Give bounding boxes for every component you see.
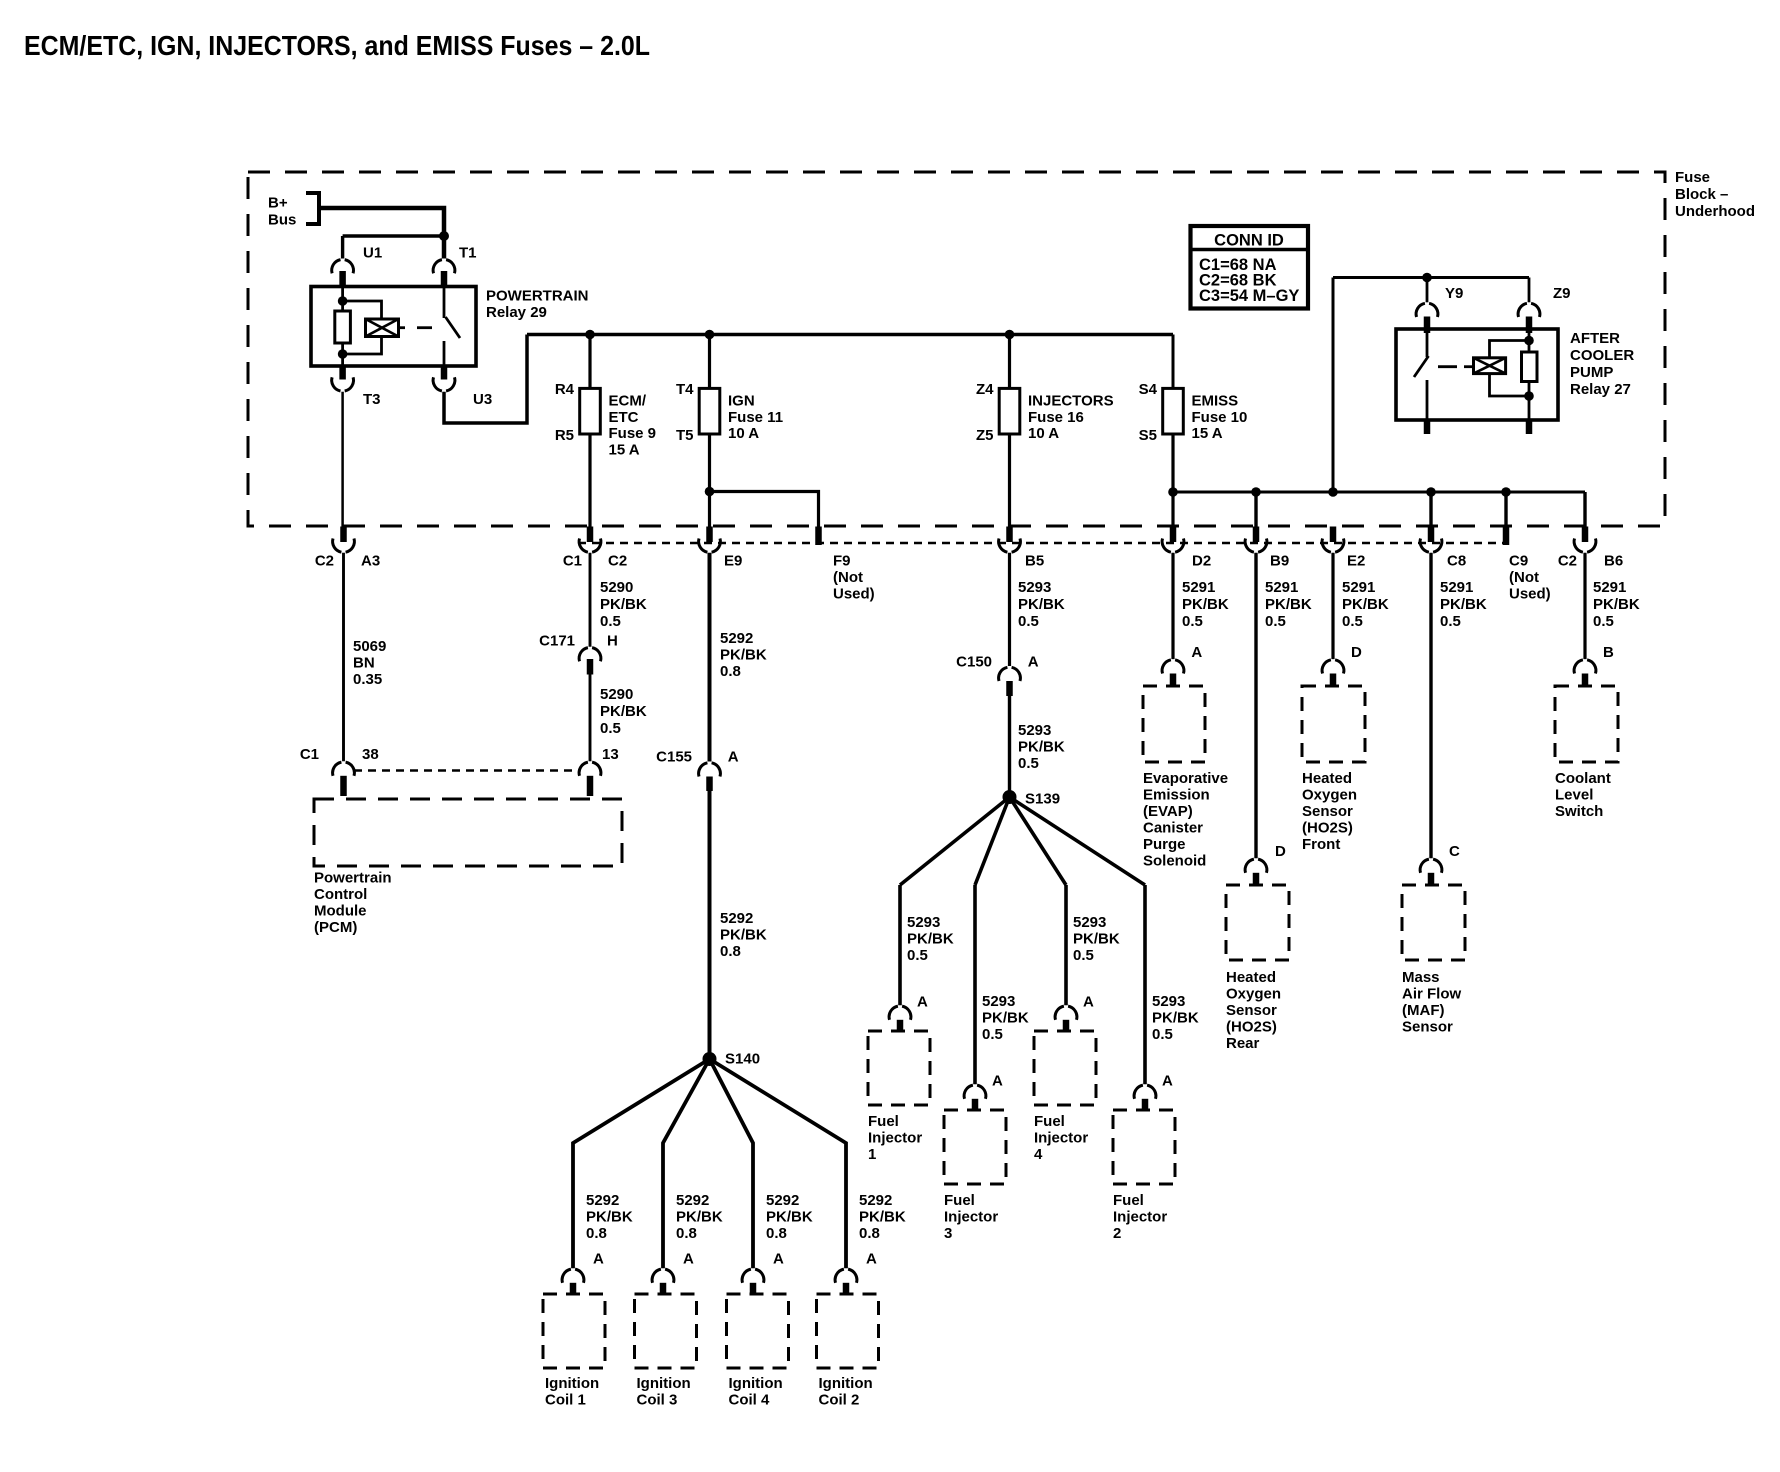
svg-text:Oxygen: Oxygen bbox=[1302, 787, 1357, 804]
svg-text:COOLER: COOLER bbox=[1570, 347, 1634, 364]
svg-text:Block –: Block – bbox=[1675, 186, 1728, 203]
svg-text:C1: C1 bbox=[563, 553, 582, 570]
svg-text:PK/BK: PK/BK bbox=[1265, 596, 1312, 613]
svg-text:15 A: 15 A bbox=[609, 441, 640, 458]
svg-text:C8: C8 bbox=[1447, 553, 1466, 570]
svg-text:A: A bbox=[728, 749, 739, 766]
svg-text:Z5: Z5 bbox=[976, 427, 994, 444]
svg-text:D: D bbox=[1351, 644, 1362, 661]
svg-text:5292: 5292 bbox=[766, 1192, 799, 1209]
svg-text:PK/BK: PK/BK bbox=[1593, 596, 1640, 613]
svg-text:Rear: Rear bbox=[1226, 1035, 1260, 1052]
svg-text:BN: BN bbox=[353, 655, 375, 672]
svg-text:Heated: Heated bbox=[1226, 969, 1276, 986]
svg-text:Fuse 11: Fuse 11 bbox=[728, 409, 783, 426]
svg-text:5293: 5293 bbox=[1018, 722, 1051, 739]
svg-text:Coil 3: Coil 3 bbox=[637, 1392, 678, 1409]
svg-text:5290: 5290 bbox=[600, 579, 633, 596]
svg-text:0.5: 0.5 bbox=[1073, 947, 1094, 964]
svg-text:A: A bbox=[773, 1251, 784, 1268]
svg-text:4: 4 bbox=[1034, 1146, 1043, 1163]
svg-text:S139: S139 bbox=[1025, 791, 1060, 808]
svg-text:C2: C2 bbox=[608, 553, 627, 570]
svg-text:E2: E2 bbox=[1347, 553, 1365, 570]
svg-text:Used): Used) bbox=[1509, 586, 1551, 603]
svg-text:Level: Level bbox=[1555, 787, 1593, 804]
svg-text:A: A bbox=[1028, 654, 1039, 671]
svg-text:PUMP: PUMP bbox=[1570, 364, 1613, 381]
svg-text:5292: 5292 bbox=[859, 1192, 892, 1209]
svg-text:0.8: 0.8 bbox=[586, 1225, 607, 1242]
svg-text:Control: Control bbox=[314, 886, 367, 903]
svg-text:C9: C9 bbox=[1509, 553, 1528, 570]
svg-text:R4: R4 bbox=[555, 381, 575, 398]
svg-text:Fuse 16: Fuse 16 bbox=[1028, 409, 1084, 426]
svg-text:Emission: Emission bbox=[1143, 787, 1210, 804]
svg-text:B+: B+ bbox=[268, 195, 288, 212]
svg-text:Injector: Injector bbox=[1034, 1130, 1088, 1147]
svg-text:B5: B5 bbox=[1025, 553, 1044, 570]
svg-text:B: B bbox=[1603, 644, 1614, 661]
svg-text:A: A bbox=[917, 994, 928, 1011]
svg-text:ECM/ETC, IGN, INJECTORS, and E: ECM/ETC, IGN, INJECTORS, and EMISS Fuses… bbox=[24, 30, 650, 61]
svg-text:Canister: Canister bbox=[1143, 820, 1203, 837]
svg-text:0.8: 0.8 bbox=[720, 663, 741, 680]
svg-text:0.8: 0.8 bbox=[859, 1225, 880, 1242]
svg-text:Underhood: Underhood bbox=[1675, 203, 1755, 220]
svg-text:0.8: 0.8 bbox=[676, 1225, 697, 1242]
svg-text:T5: T5 bbox=[676, 427, 694, 444]
svg-text:5293: 5293 bbox=[982, 993, 1015, 1010]
svg-text:PK/BK: PK/BK bbox=[1342, 596, 1389, 613]
svg-text:Module: Module bbox=[314, 903, 367, 920]
svg-text:0.8: 0.8 bbox=[720, 943, 741, 960]
svg-text:S5: S5 bbox=[1139, 427, 1157, 444]
svg-text:0.5: 0.5 bbox=[1152, 1026, 1173, 1043]
svg-text:ETC: ETC bbox=[609, 409, 639, 426]
svg-text:0.5: 0.5 bbox=[1265, 613, 1286, 630]
svg-text:Ignition: Ignition bbox=[637, 1375, 691, 1392]
svg-text:0.8: 0.8 bbox=[766, 1225, 787, 1242]
svg-text:5292: 5292 bbox=[720, 630, 753, 647]
svg-text:0.5: 0.5 bbox=[1342, 613, 1363, 630]
svg-text:5293: 5293 bbox=[1073, 914, 1106, 931]
svg-text:(HO2S): (HO2S) bbox=[1226, 1019, 1277, 1036]
svg-text:Injector: Injector bbox=[1113, 1209, 1167, 1226]
svg-text:5291: 5291 bbox=[1440, 579, 1473, 596]
svg-text:A: A bbox=[1162, 1073, 1173, 1090]
svg-text:2: 2 bbox=[1113, 1225, 1121, 1242]
svg-text:PK/BK: PK/BK bbox=[1152, 1010, 1199, 1027]
svg-text:Z4: Z4 bbox=[976, 381, 994, 398]
svg-text:C171: C171 bbox=[539, 633, 575, 650]
svg-text:(HO2S): (HO2S) bbox=[1302, 820, 1353, 837]
svg-text:H: H bbox=[607, 633, 618, 650]
svg-text:A: A bbox=[1191, 644, 1202, 661]
svg-text:PK/BK: PK/BK bbox=[1440, 596, 1487, 613]
svg-text:PK/BK: PK/BK bbox=[1018, 596, 1065, 613]
svg-text:Sensor: Sensor bbox=[1302, 803, 1353, 820]
svg-text:PK/BK: PK/BK bbox=[600, 596, 647, 613]
svg-text:Relay 29: Relay 29 bbox=[486, 304, 547, 321]
svg-text:10 A: 10 A bbox=[1028, 425, 1059, 442]
svg-text:Sensor: Sensor bbox=[1226, 1002, 1277, 1019]
svg-text:Ignition: Ignition bbox=[819, 1375, 873, 1392]
svg-text:Fuel: Fuel bbox=[1034, 1113, 1065, 1130]
svg-text:C150: C150 bbox=[956, 654, 992, 671]
svg-text:Fuel: Fuel bbox=[1113, 1192, 1144, 1209]
svg-text:Coolant: Coolant bbox=[1555, 770, 1611, 787]
svg-text:0.5: 0.5 bbox=[1018, 755, 1039, 772]
svg-text:Front: Front bbox=[1302, 836, 1340, 853]
svg-text:PK/BK: PK/BK bbox=[676, 1209, 723, 1226]
svg-text:POWERTRAIN: POWERTRAIN bbox=[486, 288, 589, 305]
svg-text:0.5: 0.5 bbox=[1593, 613, 1614, 630]
svg-text:(MAF): (MAF) bbox=[1402, 1002, 1444, 1019]
svg-text:D2: D2 bbox=[1192, 553, 1211, 570]
svg-text:PK/BK: PK/BK bbox=[720, 647, 767, 664]
svg-text:PK/BK: PK/BK bbox=[982, 1010, 1029, 1027]
svg-text:Coil 4: Coil 4 bbox=[729, 1392, 770, 1409]
svg-text:0.5: 0.5 bbox=[600, 720, 621, 737]
svg-text:PK/BK: PK/BK bbox=[766, 1209, 813, 1226]
svg-text:C3=54 M–GY: C3=54 M–GY bbox=[1199, 287, 1299, 305]
svg-text:5292: 5292 bbox=[586, 1192, 619, 1209]
svg-text:Fuse: Fuse bbox=[1675, 169, 1710, 186]
svg-text:1: 1 bbox=[868, 1146, 876, 1163]
svg-text:(PCM): (PCM) bbox=[314, 919, 357, 936]
svg-text:A: A bbox=[1083, 994, 1094, 1011]
svg-text:AFTER: AFTER bbox=[1570, 330, 1620, 347]
svg-text:0.35: 0.35 bbox=[353, 671, 382, 688]
svg-text:A: A bbox=[992, 1073, 1003, 1090]
svg-text:Switch: Switch bbox=[1555, 803, 1603, 820]
svg-text:Relay 27: Relay 27 bbox=[1570, 381, 1631, 398]
svg-text:5291: 5291 bbox=[1593, 579, 1626, 596]
svg-text:Ignition: Ignition bbox=[729, 1375, 783, 1392]
svg-text:T4: T4 bbox=[676, 381, 694, 398]
svg-text:C155: C155 bbox=[656, 749, 692, 766]
svg-text:B9: B9 bbox=[1270, 553, 1289, 570]
svg-text:C1: C1 bbox=[300, 746, 319, 763]
svg-text:Z9: Z9 bbox=[1553, 285, 1571, 302]
svg-text:Used): Used) bbox=[833, 586, 875, 603]
svg-text:Fuel: Fuel bbox=[944, 1192, 975, 1209]
svg-text:5292: 5292 bbox=[676, 1192, 709, 1209]
svg-text:U3: U3 bbox=[473, 391, 492, 408]
svg-text:EMISS: EMISS bbox=[1192, 393, 1239, 410]
svg-text:S140: S140 bbox=[725, 1051, 760, 1068]
svg-text:(Not: (Not bbox=[833, 569, 863, 586]
svg-text:Coil 2: Coil 2 bbox=[819, 1392, 860, 1409]
svg-text:0.5: 0.5 bbox=[1018, 613, 1039, 630]
svg-text:T3: T3 bbox=[363, 391, 381, 408]
svg-text:5292: 5292 bbox=[720, 910, 753, 927]
svg-text:S4: S4 bbox=[1139, 381, 1158, 398]
svg-text:INJECTORS: INJECTORS bbox=[1028, 393, 1114, 410]
svg-text:5291: 5291 bbox=[1342, 579, 1375, 596]
svg-text:C2: C2 bbox=[1558, 553, 1577, 570]
svg-text:A: A bbox=[683, 1251, 694, 1268]
svg-text:Powertrain: Powertrain bbox=[314, 870, 392, 887]
svg-text:Purge: Purge bbox=[1143, 836, 1186, 853]
svg-text:PK/BK: PK/BK bbox=[1073, 931, 1120, 948]
svg-text:5291: 5291 bbox=[1182, 579, 1215, 596]
svg-text:0.5: 0.5 bbox=[907, 947, 928, 964]
svg-text:Sensor: Sensor bbox=[1402, 1019, 1453, 1036]
svg-text:5290: 5290 bbox=[600, 686, 633, 703]
svg-text:38: 38 bbox=[362, 746, 379, 763]
svg-text:PK/BK: PK/BK bbox=[907, 931, 954, 948]
svg-text:5293: 5293 bbox=[907, 914, 940, 931]
svg-text:Oxygen: Oxygen bbox=[1226, 986, 1281, 1003]
svg-text:3: 3 bbox=[944, 1225, 952, 1242]
svg-text:Mass: Mass bbox=[1402, 969, 1440, 986]
svg-text:0.5: 0.5 bbox=[982, 1026, 1003, 1043]
svg-text:PK/BK: PK/BK bbox=[586, 1209, 633, 1226]
svg-text:R5: R5 bbox=[555, 427, 574, 444]
svg-text:5291: 5291 bbox=[1265, 579, 1298, 596]
svg-text:Heated: Heated bbox=[1302, 770, 1352, 787]
svg-text:A3: A3 bbox=[361, 553, 380, 570]
svg-text:Ignition: Ignition bbox=[545, 1375, 599, 1392]
svg-text:Air Flow: Air Flow bbox=[1402, 986, 1461, 1003]
svg-text:C: C bbox=[1449, 843, 1460, 860]
svg-text:Coil 1: Coil 1 bbox=[545, 1392, 586, 1409]
svg-text:Solenoid: Solenoid bbox=[1143, 853, 1206, 870]
svg-text:0.5: 0.5 bbox=[1440, 613, 1461, 630]
svg-text:0.5: 0.5 bbox=[1182, 613, 1203, 630]
svg-text:5293: 5293 bbox=[1018, 579, 1051, 596]
svg-text:PK/BK: PK/BK bbox=[720, 927, 767, 944]
svg-text:Fuse 10: Fuse 10 bbox=[1192, 409, 1248, 426]
svg-text:C2: C2 bbox=[315, 553, 334, 570]
svg-text:0.5: 0.5 bbox=[600, 613, 621, 630]
svg-text:A: A bbox=[593, 1251, 604, 1268]
svg-text:D: D bbox=[1275, 843, 1286, 860]
svg-text:Fuse 9: Fuse 9 bbox=[609, 425, 657, 442]
svg-text:Injector: Injector bbox=[868, 1130, 922, 1147]
svg-text:15 A: 15 A bbox=[1192, 425, 1223, 442]
svg-text:10 A: 10 A bbox=[728, 425, 759, 442]
svg-text:(EVAP): (EVAP) bbox=[1143, 803, 1193, 820]
svg-text:A: A bbox=[866, 1251, 877, 1268]
svg-text:Y9: Y9 bbox=[1445, 285, 1463, 302]
svg-text:E9: E9 bbox=[724, 553, 742, 570]
svg-text:PK/BK: PK/BK bbox=[600, 703, 647, 720]
svg-text:U1: U1 bbox=[363, 245, 382, 262]
svg-text:Evaporative: Evaporative bbox=[1143, 770, 1228, 787]
svg-text:Bus: Bus bbox=[268, 212, 296, 229]
svg-text:13: 13 bbox=[602, 746, 619, 763]
svg-text:B6: B6 bbox=[1604, 553, 1623, 570]
svg-text:PK/BK: PK/BK bbox=[859, 1209, 906, 1226]
svg-text:CONN ID: CONN ID bbox=[1214, 232, 1284, 250]
svg-text:ECM/: ECM/ bbox=[609, 393, 647, 410]
svg-text:5069: 5069 bbox=[353, 638, 386, 655]
svg-text:5293: 5293 bbox=[1152, 993, 1185, 1010]
svg-text:PK/BK: PK/BK bbox=[1182, 596, 1229, 613]
svg-text:Injector: Injector bbox=[944, 1209, 998, 1226]
svg-text:(Not: (Not bbox=[1509, 569, 1539, 586]
svg-text:Fuel: Fuel bbox=[868, 1113, 899, 1130]
svg-text:F9: F9 bbox=[833, 553, 851, 570]
svg-text:PK/BK: PK/BK bbox=[1018, 739, 1065, 756]
svg-text:IGN: IGN bbox=[728, 393, 755, 410]
svg-text:T1: T1 bbox=[459, 245, 477, 262]
